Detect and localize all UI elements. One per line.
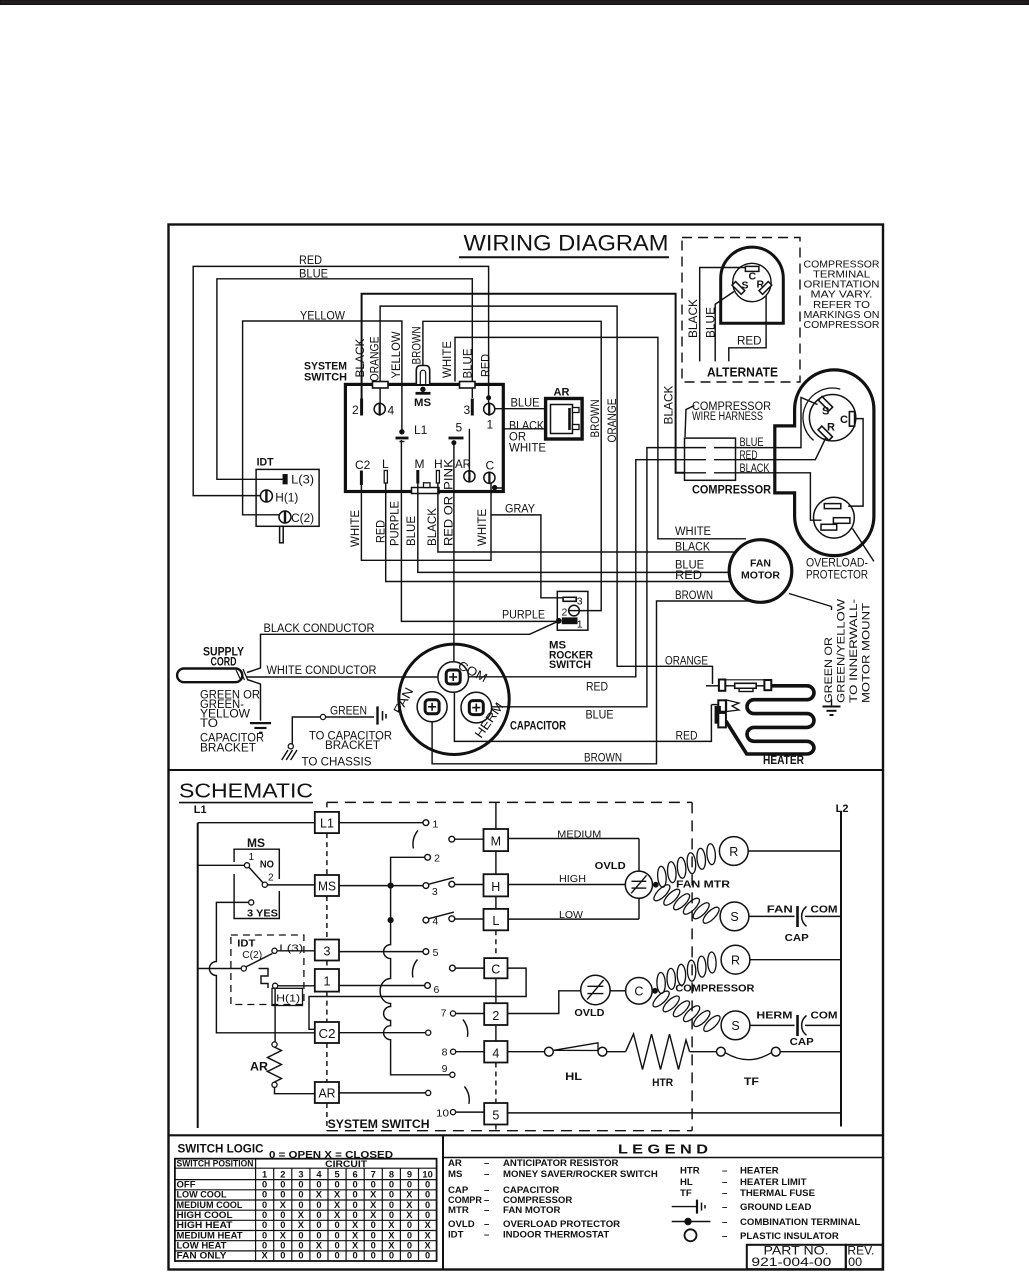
svg-text:BROWN: BROWN [412, 327, 424, 365]
svg-text:3: 3 [324, 945, 331, 959]
svg-text:–: – [722, 1188, 728, 1199]
svg-text:3: 3 [298, 1170, 303, 1180]
svg-text:CAP: CAP [790, 1036, 814, 1048]
svg-text:PART NO.: PART NO. [764, 1245, 829, 1257]
wire box 1 to contact 6 [339, 985, 425, 987]
wire GRAY (C terminal to rocker switch 3) [491, 515, 563, 598]
svg-text:–: – [722, 1202, 728, 1213]
arc row 1 [413, 831, 418, 849]
svg-text:COMPRESSOR: COMPRESSOR [804, 319, 880, 331]
svg-text:NO: NO [260, 860, 274, 871]
svg-text:BLUE: BLUE [706, 307, 718, 338]
svg-text:ANTICIPATOR RESISTOR: ANTICIPATOR RESISTOR [503, 1158, 619, 1169]
svg-text:0: 0 [371, 1179, 376, 1189]
svg-text:X: X [406, 1190, 413, 1200]
svg-text:ORANGE: ORANGE [665, 655, 708, 667]
svg-text:–: – [484, 1229, 490, 1240]
svg-text:S: S [730, 910, 738, 924]
contact C movable [450, 965, 456, 971]
capacitor circle [399, 644, 509, 754]
svg-text:RED: RED [376, 520, 388, 543]
compressor winding coil lower [651, 989, 672, 1010]
svg-text:X: X [388, 1220, 395, 1230]
compressor winding coil upper [657, 972, 666, 993]
svg-text:2: 2 [352, 403, 359, 417]
svg-text:CAP: CAP [785, 932, 809, 944]
svg-text:RED: RED [299, 255, 322, 267]
dashed chain 1-C2 [326, 992, 328, 1022]
svg-text:SWITCH LOGIC: SWITCH LOGIC [178, 1141, 264, 1155]
svg-text:X: X [280, 1200, 287, 1210]
wire L1 rail to L1 box [198, 822, 315, 824]
wire C2 box to contact row [339, 1032, 426, 1034]
legend ground lead symbol [672, 1206, 697, 1208]
svg-text:HIGH COOL: HIGH COOL [177, 1210, 233, 1220]
fan run capacitor [749, 915, 795, 917]
svg-text:0: 0 [335, 1251, 340, 1261]
svg-text:YELLOW: YELLOW [300, 311, 345, 323]
svg-text:LOW COOL: LOW COOL [177, 1190, 227, 1200]
wire box 3 to contact 5 [339, 951, 423, 953]
alternate wire RED [729, 296, 766, 362]
svg-text:OVERLOAD-: OVERLOAD- [806, 558, 868, 570]
MS switch component box [234, 849, 279, 918]
svg-text:0: 0 [425, 1200, 430, 1210]
svg-text:0: 0 [262, 1190, 267, 1200]
svg-text:SCHEMATIC: SCHEMATIC [179, 780, 313, 803]
svg-text:X: X [424, 1230, 431, 1240]
compressor wire harness pointer [685, 406, 695, 438]
svg-text:7: 7 [371, 1170, 376, 1180]
svg-text:8: 8 [389, 1170, 394, 1180]
svg-text:0: 0 [262, 1210, 267, 1220]
svg-text:X: X [334, 1200, 341, 1210]
svg-text:TO CHASSIS: TO CHASSIS [302, 757, 372, 769]
wire box 4 to HL [508, 1051, 545, 1053]
svg-text:X: X [370, 1190, 377, 1200]
svg-text:10: 10 [436, 1107, 449, 1119]
fan motor winding coil upper [657, 866, 667, 888]
contact circle AR row [426, 1090, 431, 1095]
svg-text:WHITE: WHITE [442, 341, 454, 378]
svg-text:C: C [749, 271, 757, 283]
svg-text:X: X [424, 1220, 431, 1230]
compressor terminal circle [809, 395, 855, 441]
wire rail to IDT C2 [198, 968, 242, 970]
svg-text:L1: L1 [194, 804, 207, 816]
wire H1 to box 1 [278, 985, 315, 987]
alternate pin S [732, 282, 745, 295]
wire R to L2 [748, 850, 840, 852]
svg-text:0: 0 [353, 1190, 358, 1200]
svg-text:OVLD: OVLD [574, 1007, 604, 1019]
overload protector circle [814, 497, 855, 538]
ground symbol supply [250, 722, 271, 724]
svg-text:9: 9 [407, 1170, 412, 1180]
IDT contact L3 [272, 948, 277, 953]
svg-text:FAN MOTOR: FAN MOTOR [503, 1205, 560, 1216]
svg-text:MEDIUM COOL: MEDIUM COOL [177, 1200, 243, 1210]
box 5 [484, 1103, 507, 1125]
capacitor HERM terminal [461, 692, 492, 723]
svg-text:–: – [722, 1177, 728, 1188]
svg-text:CIRCUIT: CIRCUIT [325, 1159, 367, 1169]
wire RED (switch L to fan motor) [386, 483, 731, 582]
svg-text:0: 0 [298, 1200, 303, 1210]
svg-text:C: C [491, 963, 500, 977]
compressor mounting arc [803, 388, 840, 440]
svg-text:BLUE: BLUE [406, 516, 418, 546]
svg-text:HIGH: HIGH [559, 873, 586, 885]
box 1 [315, 969, 339, 992]
svg-text:BLACK: BLACK [427, 508, 439, 546]
herm run capacitor [750, 1024, 795, 1026]
svg-text:H: H [434, 457, 443, 471]
wire GREEN to ground [247, 680, 261, 721]
svg-text:X: X [388, 1241, 395, 1251]
wire WHITE C2-C below switch [361, 484, 491, 561]
svg-text:X: X [388, 1230, 395, 1240]
overload pin 3 [821, 524, 837, 530]
svg-text:HERM: HERM [756, 1010, 792, 1022]
wire WHITE (switch to fan motor) [455, 337, 746, 538]
svg-text:7: 7 [441, 1008, 447, 1020]
svg-text:0: 0 [389, 1251, 394, 1261]
chain 2-4 [495, 1025, 497, 1041]
svg-text:1: 1 [577, 619, 583, 631]
wire junction to contact 2 row [391, 857, 425, 883]
anticipator resistor AR box [546, 399, 583, 440]
svg-text:TF: TF [744, 1076, 759, 1088]
contact 2 row [425, 854, 431, 860]
legend plastic insulator symbol [685, 1229, 697, 1241]
chain M-H [495, 851, 497, 874]
revision box [846, 1245, 883, 1269]
arc AR row [464, 1087, 469, 1104]
svg-text:GRAY: GRAY [505, 504, 535, 516]
svg-text:WHITE: WHITE [675, 526, 711, 538]
svg-text:R: R [827, 422, 835, 434]
svg-text:COMPRESSOR: COMPRESSOR [692, 483, 771, 497]
svg-text:FAN ONLY: FAN ONLY [177, 1251, 228, 1261]
box L [484, 909, 509, 930]
svg-text:R: R [729, 845, 738, 859]
contact 4 row [423, 917, 429, 923]
wire TF to L2 [780, 1051, 840, 1053]
svg-text:GREEN OR: GREEN OR [823, 637, 835, 703]
MS contact 2 [262, 882, 267, 887]
svg-text:X: X [298, 1210, 305, 1220]
svg-text:5: 5 [456, 421, 463, 435]
svg-text:PINK: PINK [444, 459, 456, 490]
box M [484, 829, 509, 851]
svg-text:MS: MS [247, 838, 265, 850]
svg-text:H: H [491, 880, 500, 894]
wire BLACK (switch terminal 2 to compressor harness) [362, 294, 685, 473]
svg-text:0: 0 [407, 1220, 412, 1230]
svg-text:H(1): H(1) [276, 993, 300, 1005]
svg-text:–: – [484, 1158, 490, 1169]
svg-text:L(3): L(3) [279, 943, 303, 955]
divider switch-logic/legend [442, 1135, 444, 1269]
svg-text:2: 2 [268, 873, 274, 884]
supply cord [177, 669, 242, 683]
box L1 [315, 812, 339, 833]
svg-text:CORD: CORD [211, 657, 237, 669]
svg-text:3 YES: 3 YES [247, 909, 278, 920]
svg-text:0: 0 [407, 1230, 412, 1240]
wire C box hook to C2 wire [309, 968, 526, 1029]
MS blade 1-2 [249, 867, 263, 883]
svg-text:C: C [840, 414, 848, 426]
svg-text:0: 0 [371, 1230, 376, 1240]
MS rocker switch box [557, 591, 588, 630]
svg-text:FAN MTR: FAN MTR [676, 879, 730, 891]
ground lead symbol [376, 706, 378, 724]
svg-text:BLUE: BLUE [740, 437, 764, 449]
svg-text:BRACKET: BRACKET [325, 740, 380, 752]
dashed chain L-C [495, 930, 497, 958]
junction dot row 4 [388, 918, 393, 923]
svg-text:MONEY SAVER/ROCKER SWITCH: MONEY SAVER/ROCKER SWITCH [503, 1169, 658, 1180]
svg-text:X: X [406, 1200, 413, 1210]
wire compressor C to overload [848, 419, 863, 507]
svg-text:FAN: FAN [391, 685, 417, 716]
svg-text:L2: L2 [836, 803, 849, 815]
svg-text:0: 0 [298, 1179, 303, 1189]
arc row 5 [413, 960, 418, 978]
compressor terminal C circle [626, 978, 653, 1005]
wire ORANGE (switch terminal 4 to heater limit) [380, 306, 712, 684]
svg-text:S: S [822, 406, 829, 418]
svg-text:WHITE: WHITE [509, 443, 546, 455]
svg-text:6: 6 [434, 984, 440, 996]
svg-text:1: 1 [262, 1170, 267, 1180]
svg-text:00: 00 [848, 1257, 862, 1269]
heater coil [726, 686, 814, 754]
svg-text:C2: C2 [319, 1027, 336, 1041]
wire HTR to TF [690, 1051, 717, 1053]
svg-text:HEATER: HEATER [763, 755, 805, 767]
switch logic table [175, 1159, 437, 1261]
svg-text:BLUE: BLUE [511, 398, 540, 410]
alternate pin R [759, 282, 772, 295]
IDT terminal L(3) [283, 475, 286, 484]
arc C2 row [463, 1020, 468, 1037]
IDT anticipator step [259, 969, 269, 989]
switch terminal 4 (combination) [374, 403, 385, 414]
svg-text:0: 0 [371, 1241, 376, 1251]
IDT blade [246, 954, 272, 967]
svg-text:COM: COM [811, 1010, 838, 1022]
svg-text:HL: HL [680, 1177, 693, 1188]
wire L1 box to contact 1 [339, 822, 423, 824]
junction dot fan windings [653, 882, 658, 887]
terminal L1 inside switch [400, 430, 404, 434]
svg-text:BLACK: BLACK [355, 338, 367, 377]
svg-text:L1: L1 [414, 423, 428, 437]
plug symbol on switch bottom edge [412, 488, 440, 494]
svg-text:MOTOR MOUNT: MOTOR MOUNT [861, 603, 873, 703]
fan motor winding coil lower [652, 882, 673, 903]
svg-text:0: 0 [316, 1200, 321, 1210]
chassis ground symbol [282, 750, 288, 760]
svg-text:BROWN: BROWN [590, 400, 602, 438]
harness wire RED to compressor R [736, 438, 827, 460]
alternate pin C [745, 266, 759, 271]
selector vertical with hops [380, 920, 450, 1075]
svg-text:X: X [316, 1241, 323, 1251]
contact 6 row [425, 983, 431, 989]
svg-text:MOTOR: MOTOR [741, 570, 780, 582]
svg-text:L E G E N D: L E G E N D [618, 1143, 708, 1157]
wire BLACK CONDUCTOR [247, 622, 557, 673]
switch terminal 2 [360, 399, 363, 416]
svg-text:INDOOR THERMOSTAT: INDOOR THERMOSTAT [503, 1229, 609, 1240]
wire BLACK OR WHITE (C terminal to AR) [495, 429, 546, 488]
svg-text:BROWN: BROWN [675, 590, 713, 602]
green bracket lead [320, 714, 325, 719]
wire YELLOW (to L1 terminal and IDT C(2)) [243, 321, 402, 515]
svg-text:–: – [722, 1217, 728, 1228]
svg-text:0: 0 [316, 1230, 321, 1240]
alternate compressor dashed box [682, 238, 800, 383]
svg-text:0: 0 [407, 1241, 412, 1251]
part number box [747, 1245, 846, 1269]
svg-text:0: 0 [262, 1230, 267, 1240]
svg-text:REV.: REV. [847, 1245, 874, 1257]
svg-text:921-004-00: 921-004-00 [751, 1257, 831, 1269]
svg-text:LOW: LOW [559, 909, 583, 921]
section divider wiring/schematic [169, 769, 884, 771]
section divider schematic/tables [169, 1134, 884, 1136]
svg-text:ALTERNATE: ALTERNATE [707, 366, 778, 380]
wire RED OR PINK (terminal 5 to capacitor COM) [453, 443, 455, 662]
svg-text:PURPLE: PURPLE [502, 610, 545, 622]
IDT contact C2 [241, 966, 246, 971]
svg-text:1: 1 [324, 975, 331, 989]
svg-text:–: – [484, 1205, 490, 1216]
wire LOW [508, 918, 639, 920]
svg-text:BLACK: BLACK [664, 385, 676, 424]
svg-text:RED OR: RED OR [444, 496, 456, 546]
svg-text:RED: RED [737, 336, 762, 348]
svg-text:0: 0 [335, 1220, 340, 1230]
wire BLUE (switch M to fan motor) [418, 484, 729, 573]
svg-text:0: 0 [353, 1251, 358, 1261]
svg-text:M: M [491, 835, 501, 849]
svg-text:SWITCH: SWITCH [304, 372, 347, 384]
motor terminal S fan [720, 902, 749, 931]
overload pin 1 [824, 504, 841, 509]
svg-text:AR: AR [319, 1087, 336, 1101]
svg-text:0: 0 [425, 1190, 430, 1200]
svg-text:C(2): C(2) [242, 949, 262, 961]
svg-text:C(2): C(2) [291, 513, 314, 525]
svg-text:BROWN: BROWN [584, 753, 622, 765]
wire BROWN (MS fork to rocker switch 2) [423, 321, 601, 610]
svg-text:5: 5 [433, 947, 439, 959]
dashed chain above L1 box [326, 802, 328, 812]
svg-text:PURPLE: PURPLE [390, 501, 402, 546]
alternate wire BLACK [700, 268, 745, 362]
svg-text:9: 9 [442, 1063, 448, 1075]
svg-text:C: C [634, 985, 643, 999]
svg-text:0: 0 [353, 1200, 358, 1210]
svg-text:3: 3 [464, 403, 471, 417]
svg-text:X: X [352, 1230, 359, 1240]
svg-text:0: 0 [262, 1179, 267, 1189]
wire RED (supply to switch terminal 1 and IDT H(1)) [193, 266, 488, 495]
svg-text:S: S [742, 280, 749, 292]
svg-text:R: R [757, 279, 765, 291]
svg-text:0: 0 [316, 1210, 321, 1220]
svg-text:10: 10 [422, 1170, 432, 1180]
compressor pin S [818, 396, 832, 410]
svg-text:2: 2 [280, 1170, 285, 1180]
svg-text:0: 0 [316, 1179, 321, 1189]
box C [484, 958, 507, 978]
svg-text:L: L [382, 457, 389, 471]
svg-text:0: 0 [389, 1190, 394, 1200]
svg-text:MS: MS [448, 1169, 463, 1180]
spade terminal on top edge (orange) [373, 382, 389, 389]
svg-text:0: 0 [371, 1220, 376, 1230]
IDT contact H1 [273, 983, 278, 988]
capacitor FAN terminal [417, 692, 447, 722]
wire RED (capacitor COM to heater) [454, 692, 711, 741]
svg-text:WHITE: WHITE [350, 510, 362, 547]
wire MS contact 2 to MS box [267, 884, 314, 886]
svg-text:WHITE CONDUCTOR: WHITE CONDUCTOR [267, 665, 377, 677]
svg-text:ORANGE: ORANGE [370, 336, 382, 381]
wire junction down to contact 4 row [390, 888, 392, 920]
svg-text:X: X [334, 1210, 341, 1220]
svg-text:HEATER: HEATER [740, 1166, 779, 1177]
svg-text:2: 2 [562, 607, 568, 619]
svg-text:FAN: FAN [750, 558, 771, 570]
svg-text:WIRE HARNESS: WIRE HARNESS [692, 411, 763, 423]
svg-text:FAN: FAN [767, 904, 793, 916]
svg-text:0: 0 [353, 1179, 358, 1189]
svg-text:AR: AR [455, 459, 471, 471]
alternate terminal circle [733, 263, 771, 301]
box H [484, 874, 509, 896]
box 4 [484, 1041, 507, 1063]
dashed chain 5-bottom [495, 1125, 497, 1131]
resistor AR schematic [272, 1042, 277, 1047]
svg-text:0: 0 [262, 1241, 267, 1251]
svg-text:0: 0 [389, 1210, 394, 1220]
svg-text:C: C [486, 459, 495, 473]
svg-text:0: 0 [280, 1251, 285, 1261]
svg-text:IDT: IDT [237, 938, 256, 950]
compressor pin R [818, 426, 832, 440]
svg-text:3: 3 [577, 596, 583, 608]
chain C-2 [495, 978, 497, 1003]
svg-text:GROUND LEAD: GROUND LEAD [740, 1202, 811, 1213]
svg-text:0: 0 [262, 1220, 267, 1230]
svg-text:0: 0 [280, 1179, 285, 1189]
svg-text:0: 0 [425, 1179, 430, 1189]
wire HIGH [508, 884, 625, 886]
harness wire BLACK to overload [736, 473, 822, 520]
svg-text:0: 0 [316, 1251, 321, 1261]
capacitor COM terminal [438, 662, 469, 693]
svg-text:X: X [406, 1210, 413, 1220]
overload pin 2 [833, 518, 850, 524]
wire box 2 to compressor OVLD [508, 991, 581, 1014]
